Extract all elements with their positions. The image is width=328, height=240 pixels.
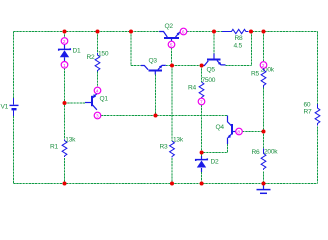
resistor R8 <box>222 29 248 33</box>
resistor R2 <box>95 53 100 72</box>
wire R4 D2 column <box>201 66 203 184</box>
diode D1 <box>59 44 71 61</box>
svg-text:R8: R8 <box>235 35 244 42</box>
wire R2 column <box>97 32 99 88</box>
wire top rail left <box>14 31 160 33</box>
junction D2 top <box>200 151 204 155</box>
svg-text:7500: 7500 <box>202 77 216 84</box>
svg-text:4.5: 4.5 <box>234 43 243 50</box>
svg-text:8: 8 <box>237 130 240 135</box>
svg-text:2: 2 <box>262 63 265 68</box>
svg-text:150: 150 <box>98 51 109 58</box>
junction bottom rail R1 <box>63 182 67 186</box>
wire R5 R6 column <box>263 32 265 184</box>
svg-text:Q1: Q1 <box>100 96 109 103</box>
resistor R3 <box>170 141 175 158</box>
wire Q3 collector riser <box>131 32 141 66</box>
svg-text:D2: D2 <box>211 159 220 166</box>
transistor Q1 <box>85 94 97 110</box>
wire bottom rail <box>14 183 318 185</box>
wire Q2 emitter to Q3 column <box>166 48 172 66</box>
svg-text:60: 60 <box>304 102 311 109</box>
svg-text:Q4: Q4 <box>216 124 225 131</box>
junction bottom rail R3 <box>170 182 174 186</box>
svg-text:R5: R5 <box>251 71 260 78</box>
svg-text:V1: V1 <box>1 104 9 111</box>
junction top rail Q5 base <box>212 30 216 34</box>
transistor Q3 <box>141 65 166 74</box>
svg-text:5: 5 <box>170 43 173 48</box>
junction Q1 base <box>63 101 67 105</box>
resistor R5 <box>261 68 266 87</box>
svg-text:13k: 13k <box>173 137 184 144</box>
wire right edge <box>317 32 319 184</box>
resistor R1 <box>62 140 67 158</box>
wire Q5 base column <box>213 32 215 54</box>
wire left edge <box>13 32 15 184</box>
junction node row Q3 emitter <box>170 64 174 68</box>
node 4 at Q1 collector <box>94 87 101 94</box>
wire Q3 base column <box>155 75 157 116</box>
junction top rail D1 <box>63 30 67 34</box>
wire node row y65 middle <box>172 65 202 67</box>
junction top rail Q5 emitter riser <box>249 30 253 34</box>
svg-text:7: 7 <box>200 100 203 105</box>
wire R3 column <box>171 66 173 184</box>
node 7 at R4 bottom <box>198 98 205 105</box>
junction Q4 base R5 column <box>262 130 266 134</box>
svg-text:R2: R2 <box>87 54 96 61</box>
transistor Q4 <box>228 116 236 145</box>
svg-text:R4: R4 <box>188 85 197 92</box>
svg-text:R7: R7 <box>304 109 313 116</box>
wire Q4 emitter to D2 <box>202 144 228 153</box>
junction top rail R5 column <box>262 30 266 34</box>
svg-text:200k: 200k <box>264 149 278 156</box>
wire top rail right <box>249 31 318 33</box>
resistor R6 <box>261 148 266 170</box>
junction top rail Q3 riser <box>129 30 133 34</box>
svg-text:D1: D1 <box>73 48 82 55</box>
wire Q4 collector drop <box>227 116 229 121</box>
diode D2 <box>196 156 208 172</box>
node 3 at Q1 emitter <box>94 112 101 119</box>
svg-text:6: 6 <box>182 30 185 35</box>
svg-text:Q3: Q3 <box>149 58 158 65</box>
svg-text:Q2: Q2 <box>165 23 174 30</box>
node 2 at D1 top <box>61 38 68 45</box>
svg-text:Q5: Q5 <box>207 67 216 74</box>
svg-text:13k: 13k <box>65 137 76 144</box>
svg-text:3: 3 <box>96 114 99 119</box>
wire Q5 emitter riser <box>226 32 252 66</box>
svg-text:R3: R3 <box>160 144 169 151</box>
svg-text:2: 2 <box>63 39 66 44</box>
transistor Q2 <box>159 32 180 42</box>
wire Q4 base to R5 column <box>242 131 263 133</box>
wire emitter row y115 <box>101 115 228 117</box>
wire D1 column <box>64 32 66 184</box>
transistor Q5 <box>203 54 226 66</box>
svg-text:R6: R6 <box>252 149 261 156</box>
junction bottom rail ground <box>262 182 266 186</box>
resistor R7 <box>315 104 320 126</box>
node 2 at R5 top <box>260 62 267 69</box>
node 5 at Q2 base <box>168 41 175 48</box>
wire Q1 base <box>65 102 86 104</box>
svg-text:1: 1 <box>63 63 66 68</box>
node 1 at D1 bottom <box>61 62 68 69</box>
junction node row Q5 collector <box>200 64 204 68</box>
junction Q3 base row <box>154 114 158 118</box>
svg-text:R1: R1 <box>50 144 59 151</box>
wire top rail middle <box>187 31 222 33</box>
svg-text:4: 4 <box>96 89 99 94</box>
node 8 at Q4 base <box>236 128 243 135</box>
resistor R4 <box>199 82 204 99</box>
junction top rail R2 <box>96 30 100 34</box>
battery V1 <box>10 98 19 116</box>
node 6 at Q2 emitter <box>180 28 187 35</box>
ground <box>257 184 271 194</box>
junction bottom rail D2 <box>200 182 204 186</box>
